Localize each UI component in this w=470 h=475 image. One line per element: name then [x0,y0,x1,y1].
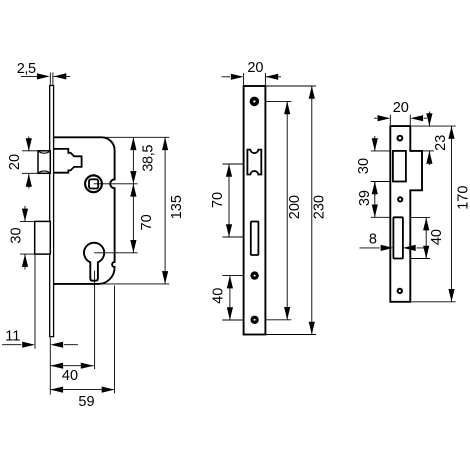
svg-text:20: 20 [247,60,263,76]
svg-text:2,5: 2,5 [17,61,36,77]
svg-text:70: 70 [210,192,226,208]
svg-text:23: 23 [433,135,449,151]
svg-text:200: 200 [287,195,303,219]
svg-text:30: 30 [356,158,372,174]
svg-text:11: 11 [5,329,20,345]
svg-text:20: 20 [393,100,409,116]
svg-text:40: 40 [429,229,445,245]
svg-text:38,5: 38,5 [140,145,156,172]
svg-text:8: 8 [369,231,377,247]
svg-text:70: 70 [139,214,155,230]
svg-text:39: 39 [357,190,373,206]
svg-text:30: 30 [8,227,24,243]
svg-text:170: 170 [455,186,470,210]
svg-text:20: 20 [7,154,23,170]
svg-text:230: 230 [311,195,327,219]
svg-text:135: 135 [169,195,185,219]
svg-text:40: 40 [62,368,78,384]
svg-text:40: 40 [211,288,227,304]
svg-text:59: 59 [78,394,94,410]
